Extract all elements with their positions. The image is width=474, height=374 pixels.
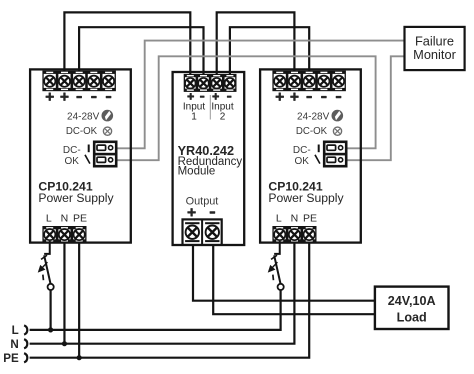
svg-text:Output: Output: [186, 195, 219, 207]
PS1 labels L N PE: [46, 212, 87, 224]
svg-text:N: N: [291, 213, 299, 225]
module output terminal strip: [183, 219, 222, 245]
svg-text:24-28V: 24-28V: [297, 112, 330, 123]
svg-text:Module: Module: [178, 166, 216, 178]
svg-text:Power Supply: Power Supply: [268, 191, 344, 205]
wire PS2 - output to module Input2 -: [230, 27, 309, 80]
failure monitor box: [405, 27, 465, 70]
PS2 DC-OK LED indicator: [333, 127, 341, 135]
svg-text:L: L: [276, 212, 282, 224]
svg-text:DC-OK: DC-OK: [296, 126, 328, 137]
PS1 DC-OK contact labels: [63, 145, 81, 167]
PS2 labels L N PE: [276, 212, 317, 224]
svg-text:PE: PE: [3, 352, 19, 365]
svg-text:DC-: DC-: [63, 145, 81, 156]
wire L bus to PS2 switch: [30, 290, 281, 330]
PS1 DC-OK relay contact symbol: [85, 145, 90, 164]
load box (24V,10A Load): [375, 287, 449, 329]
svg-text:Monitor: Monitor: [413, 47, 456, 62]
wire PS1 N terminal to N bus: [63, 241, 65, 344]
redundancy module U1 (YR40.242) box: [173, 72, 245, 245]
PS1 DC-OK terminal block: [94, 142, 116, 166]
svg-text:DC-: DC-: [293, 145, 311, 156]
svg-text:PE: PE: [303, 213, 317, 225]
svg-text:OK: OK: [294, 156, 309, 167]
PS2 voltage adjust potentiometer: [332, 110, 344, 122]
PS2 mains terminal strip (L N PE): [272, 226, 316, 243]
wire N bus to PS2 N terminal: [30, 241, 295, 344]
power supply PS2 (CP10.241) box: [260, 69, 361, 242]
module input terminal strip: [184, 74, 237, 92]
power supply PS1 (CP10.241) box: [30, 69, 131, 242]
svg-text:L: L: [46, 212, 52, 224]
svg-text:L: L: [12, 324, 19, 337]
PS1 DC-OK LED indicator: [103, 127, 111, 135]
wire PS1 DC-OK contact b to PS2 DC-OK contact a (series): [116, 56, 376, 160]
node junction N bus / PS1 N: [62, 341, 67, 346]
svg-text:24V,10A: 24V,10A: [388, 294, 436, 308]
PS1 terminal polarity labels + + - - -: [46, 93, 112, 101]
svg-text:DC-OK: DC-OK: [66, 126, 98, 137]
svg-text:N: N: [61, 213, 69, 225]
svg-text:2: 2: [220, 111, 226, 122]
PS1 mains terminal strip (L N PE): [42, 226, 86, 243]
switch S2 (mains disconnect): [268, 241, 284, 290]
mains input connector L: [24, 325, 27, 334]
PS1 voltage adjust potentiometer: [102, 110, 114, 122]
mains input connector PE: [24, 353, 27, 362]
switch S1 (mains disconnect): [38, 241, 54, 290]
node junction L bus / PS1 switch: [48, 327, 53, 332]
svg-text:OK: OK: [64, 156, 79, 167]
svg-text:N: N: [10, 338, 18, 351]
svg-text:Load: Load: [397, 311, 427, 325]
svg-text:1: 1: [191, 111, 197, 122]
wire PS1 PE terminal to PE bus: [78, 241, 80, 358]
svg-text:Power Supply: Power Supply: [38, 191, 114, 205]
wire PS1 DC-OK contact a to failure monitor: [116, 41, 404, 149]
wire module output + to load: [193, 240, 375, 301]
PS2 terminal polarity labels + + - - -: [276, 93, 342, 101]
module input polarity labels + - + -: [187, 93, 231, 100]
module output polarity labels + -: [187, 208, 215, 216]
mains input connector N: [24, 339, 27, 348]
PS2 DC-OK contact labels: [293, 145, 311, 167]
wire PE bus to PS2 PE terminal: [30, 241, 310, 358]
PS2 DC-OK terminal block: [324, 142, 346, 166]
wire PS1 + output to module Input1 +: [64, 12, 190, 80]
mains labels L N PE: [3, 324, 19, 365]
wire PS2 + output to module Input2 +: [217, 12, 295, 80]
node junction PE bus / PS1 PE: [77, 355, 82, 360]
wire PS1 - output to module Input1 -: [79, 27, 203, 80]
module labels Input 1 / Input 2: [183, 101, 234, 122]
PS1 input terminal strip (+ + - - -): [42, 71, 116, 92]
PS2 input terminal strip (+ + - - -): [272, 71, 346, 92]
wire PS1 switch to L bus: [49, 290, 51, 330]
wire module output - to load: [213, 240, 375, 314]
wire PS2 DC-OK contact b to failure monitor: [346, 56, 404, 160]
svg-text:24-28V: 24-28V: [67, 112, 100, 123]
PS2 DC-OK relay contact symbol: [315, 145, 320, 164]
module input divider line: [209, 95, 211, 120]
svg-text:PE: PE: [73, 213, 87, 225]
